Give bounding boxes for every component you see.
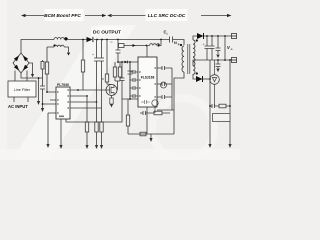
IC U1 FL7930 box: [56, 87, 70, 119]
ZCD aux winding: [47, 45, 64, 47]
node dots U1 pins: [77, 89, 79, 91]
svg-text:FL7930: FL7930: [57, 83, 69, 87]
left light strip: [0, 0, 7, 160]
resistor R4 box: [126, 115, 129, 126]
wire bridge bottom to cap column: [21, 73, 43, 78]
MOSFET source resistor Rs: [111, 96, 113, 99]
dimension line BCM section left arrow: [24, 15, 44, 17]
T1 core lines: [188, 44, 190, 74]
secondary return rail: [193, 60, 232, 66]
U2 left pin caps: [130, 70, 138, 74]
resonant cap Cr bars: [170, 37, 173, 43]
shunt regulator U3: [210, 75, 220, 85]
U2 right pin cap row 1: [157, 66, 172, 70]
resistor divider wire 1: [86, 96, 88, 145]
T1 secondary bottom winding: [193, 58, 195, 75]
output terminal minus: [232, 58, 237, 63]
svg-text:FLS2168: FLS2168: [141, 76, 155, 80]
boost diode D1: [87, 37, 93, 42]
wire ZCD left vertical with resistor: [47, 47, 56, 92]
U2 bottom pin: [146, 107, 148, 134]
line filter box: [8, 81, 36, 97]
resistor R1 box: [85, 122, 88, 132]
wire rail mid: [94, 39, 170, 41]
arrowhead BCM right: [102, 14, 106, 17]
bridge diode D-d: [23, 65, 28, 71]
vcc cap column: [129, 62, 131, 99]
startup resistor wire: [107, 40, 112, 85]
Lr winding dot: [157, 44, 159, 46]
feedback row 2 wire: [210, 104, 230, 108]
node dot vcc: [117, 61, 119, 63]
watermark diagonal band: [12, 25, 136, 160]
secondary rectifier D2: [197, 33, 204, 39]
transistor Q2: [161, 82, 167, 88]
MOSFET Q1: [106, 85, 117, 96]
T1 primary bottom return wire: [174, 72, 184, 110]
ground arrow cap column: [41, 108, 44, 112]
resistor R6 box: [219, 104, 226, 108]
fuse box: [119, 44, 125, 48]
svg-text:Line Filter: Line Filter: [14, 88, 31, 92]
resistor divider wire 3: [101, 108, 103, 145]
cap below rail wire: [216, 60, 221, 68]
U1 right pin wires: [70, 89, 106, 91]
T1 secondary top dot: [196, 39, 198, 41]
cap C3 bars: [116, 50, 121, 53]
ground rail U2: [128, 133, 174, 135]
resistor Rg2 box: [118, 67, 121, 77]
resistor R5 box: [154, 111, 162, 115]
startup resistor box: [105, 74, 108, 82]
svg-text:o: o: [231, 47, 233, 51]
feedback wire from rail: [82, 40, 84, 91]
ground arrow R3: [100, 145, 103, 149]
dimension line LLC right segment: [201, 15, 228, 17]
boost inductor L1: [54, 38, 68, 40]
gate resistor column 1: [114, 62, 116, 81]
startup cap wire: [117, 40, 119, 63]
gate resistor column 2: [119, 62, 121, 81]
svg-text:+: +: [203, 43, 205, 47]
wire ground column: [38, 78, 40, 101]
svg-text:N: N: [174, 41, 177, 45]
optocoupler U4 box: [213, 114, 231, 122]
bottom light strip: [0, 149, 240, 160]
T1 primary winding: [182, 46, 184, 72]
ground arrow pin x48: [46, 144, 49, 148]
output rail top: [204, 35, 232, 37]
left column resistor wire: [127, 99, 129, 134]
resistor R-zcd box: [45, 62, 48, 74]
svg-text:AC INPUT: AC INPUT: [8, 104, 28, 109]
arrowhead left end: [21, 14, 26, 17]
IC U2 FLS2168 box: [138, 57, 157, 107]
svg-text:+: +: [92, 53, 94, 57]
half-bridge wire with fuse: [124, 40, 161, 46]
node dot input: [38, 77, 40, 79]
T1 primary dot: [180, 44, 182, 46]
U1 left pin stubs: [48, 100, 56, 144]
bulk cap C1 bars: [94, 58, 99, 61]
svg-text:30: 30: [101, 77, 105, 81]
line filter stubs: [14, 97, 28, 102]
cap C4 bars: [128, 71, 133, 74]
ground arrow out1: [216, 55, 219, 59]
rail-to-rail wire: [224, 36, 226, 60]
ground arrow out2: [216, 69, 219, 73]
feedback vertical right: [229, 60, 231, 144]
ground arrow fb rail: [228, 144, 231, 148]
wire cap column input: [43, 60, 57, 108]
resistor box on U2 ground rail: [140, 132, 146, 136]
right cluster vertical bus: [157, 68, 174, 134]
T1 secondary bottom dot: [196, 72, 198, 74]
label LLC SRC DC-DC: [146, 9, 188, 21]
resistor Rfb box: [81, 60, 84, 72]
output cap Co3 wire: [216, 36, 221, 54]
dimension line LLC left segment: [112, 15, 146, 17]
output terminal plus: [232, 34, 237, 39]
T1 secondary top winding: [193, 40, 195, 57]
wire inductor to boost diode: [68, 39, 87, 41]
resistor divider wire 2: [96, 102, 98, 145]
gate join wire: [115, 81, 120, 90]
bridge diode D-c: [14, 65, 19, 71]
cap Cin bars: [40, 86, 45, 89]
dimension line BCM right segment: [85, 15, 103, 17]
resistor Rg1 box: [113, 67, 116, 77]
arrowhead right end: [227, 14, 232, 17]
wire bridge top to rail: [21, 40, 54, 54]
bridge diode D-b: [23, 55, 28, 61]
bulk cap wire 2: [101, 40, 103, 109]
U2 right pin cap row 2: [157, 82, 172, 86]
svg-text:C: C: [111, 40, 113, 44]
svg-text:DC OUTPUT: DC OUTPUT: [93, 30, 121, 36]
rectified bottom wire: [203, 78, 211, 80]
vcc cap column 2: [120, 62, 125, 99]
svg-text:LLC SRC DC-DC: LLC SRC DC-DC: [148, 13, 186, 19]
watermark ring: [152, 98, 214, 160]
svg-text:p: p: [178, 42, 180, 46]
ground arrow bridge: [31, 74, 34, 78]
U2 right pin cap row 3: [157, 95, 172, 99]
main negative vertical: [209, 60, 211, 144]
output cap Co1: [205, 36, 210, 60]
wire ZCD right to arrow: [64, 47, 68, 52]
ground arrow R2: [95, 145, 98, 149]
transformer T1: [182, 40, 195, 74]
bridge rectifier BD1 diamond: [13, 53, 33, 81]
secondary bottom wire to diode: [193, 74, 196, 79]
node dots on DC rail: [82, 39, 84, 41]
secondary rectifier D3: [196, 76, 203, 82]
output cap Co2: [210, 36, 215, 60]
ground arrow R1: [85, 145, 88, 149]
arrow mark on half-bridge wire: [133, 44, 136, 47]
VCC rail wire: [118, 61, 138, 63]
ground arrow input: [37, 101, 40, 105]
bulk cap C2 bars: [99, 58, 104, 61]
ground arrow neg rail: [208, 144, 211, 148]
ground arrow Rs: [110, 104, 113, 108]
bridge diode D-a: [14, 55, 19, 61]
U1 bottom ground stub: [60, 119, 62, 145]
ground wire right cluster: [122, 98, 140, 100]
winding dot ZCD: [53, 44, 55, 46]
resistor R3 box: [100, 122, 103, 132]
arrowhead LLC left: [107, 14, 111, 17]
ground arrow U1: [59, 145, 62, 149]
bulk cap wire 1: [96, 40, 98, 103]
label DC OUTPUT bg: [91, 27, 123, 36]
label BCM Boost PFC: [45, 9, 84, 21]
ground arrow U2: [149, 138, 152, 142]
secondary top wire to diode: [193, 36, 197, 40]
node dot ZCD-pin: [46, 91, 48, 93]
wire Cr to transformer: [173, 40, 185, 46]
feedback row wire: [140, 111, 170, 115]
resonant inductor Lr: [150, 44, 160, 46]
node dot drain: [146, 45, 148, 47]
U2 left decoupling bus: [129, 62, 131, 99]
node dots feedback: [209, 105, 211, 107]
diode on vcc rail: [125, 61, 128, 64]
winding dot L1: [65, 38, 68, 41]
ZCD down arrow: [67, 53, 70, 56]
node dots output rail: [206, 35, 208, 37]
resistor Rin box: [41, 62, 44, 70]
transistor Q3: [152, 100, 158, 106]
svg-text:BCM Boost PFC: BCM Boost PFC: [44, 13, 81, 19]
U2 internal cap mark: [141, 100, 150, 104]
U2 top pin: [146, 46, 148, 58]
U1 bottom sense wire: [66, 99, 122, 122]
U1 pin ticks: [57, 89, 69, 117]
node dot cap column: [42, 103, 44, 105]
U2 pin ticks: [139, 67, 156, 97]
resistor R2 box: [95, 122, 98, 132]
opto inner mark: [215, 116, 217, 118]
